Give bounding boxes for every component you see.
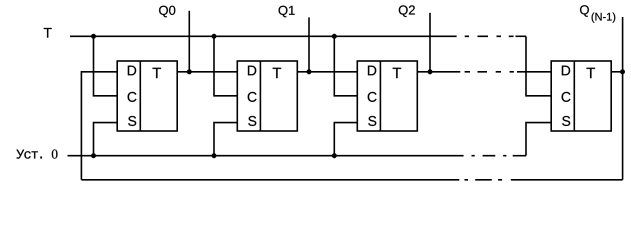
flip-flop U3 box (357, 61, 417, 131)
pin label D3 (368, 66, 376, 76)
label Уст.0 (16, 150, 57, 159)
pin label S1 (128, 116, 136, 126)
pin label D4 (562, 66, 570, 76)
wire Q(N-1) tap and feedback drop (622, 17, 624, 180)
label U1 type T (153, 68, 161, 78)
node T-C2 junction (212, 34, 217, 39)
wire C1 clock drop (94, 36, 118, 96)
wire C3 clock drop (334, 36, 357, 96)
flip-flop U2 divider (259, 61, 261, 131)
label Q2 (399, 5, 415, 17)
node T-C1 junction (91, 34, 96, 39)
label Q0 (159, 6, 175, 18)
pin label S3 (368, 116, 376, 126)
wire Q0 tap vertical (188, 11, 190, 72)
wire Q2 tap vertical (429, 13, 431, 72)
wire D1 feedback riser (81, 72, 117, 180)
pin label D2 (248, 66, 256, 76)
wire D4 input segment (517, 71, 551, 73)
node Q0 tap junction (187, 69, 192, 74)
label Q of Q(N-1) (580, 5, 589, 17)
flip-flop U4 box (551, 61, 611, 131)
wire bottom rail dash-dot continuation (465, 179, 503, 181)
node Уст.0-S1 junction (91, 153, 96, 158)
wire C4 clock drop (526, 36, 551, 96)
wire T clock rail (70, 35, 457, 37)
pin label C1 (128, 92, 137, 102)
wire Уст.0 rail right end (513, 155, 526, 157)
wire C2 clock drop (214, 36, 237, 96)
wire Q2-D4 dash-dot continuation (465, 71, 514, 73)
node Q(N-1) tap junction (620, 69, 625, 74)
wire bottom rail right end (511, 179, 623, 181)
wire S1 set riser (94, 123, 118, 156)
label subscript (N-1) (592, 13, 616, 23)
node T-C3 junction (332, 34, 337, 39)
wire feedback bottom rail (81, 179, 459, 181)
flip-flop U1 divider (139, 61, 141, 131)
node Уст.0-S2 junction (212, 153, 217, 158)
pin label S2 (248, 116, 256, 126)
wire Q1 tap vertical (308, 17, 310, 71)
label U3 type T (393, 68, 401, 78)
pin label C3 (368, 92, 377, 102)
pin label D1 (128, 66, 136, 76)
flip-flop U2 box (237, 61, 297, 131)
pin label S4 (562, 116, 570, 126)
wire Q1 output to D3 (297, 71, 357, 73)
label U4 type T (587, 68, 595, 78)
wire T rail right end (516, 35, 527, 37)
wire Уст.0 reset rail (68, 155, 464, 157)
label U2 type T (273, 68, 281, 78)
node Q1 tap junction (307, 69, 312, 74)
wire Уст.0 rail dash-dot continuation (472, 155, 507, 157)
flip-flop U3 divider (379, 61, 381, 131)
wire Q0 output to D2 (177, 71, 237, 73)
wire S4 set riser (526, 123, 551, 156)
node Уст.0-S3 junction (332, 153, 337, 158)
pin label C2 (248, 92, 257, 102)
node Q2 tap junction (428, 69, 433, 74)
wire S2 set riser (214, 123, 237, 156)
pin label C4 (562, 92, 571, 102)
flip-flop U4 divider (573, 61, 575, 131)
label Q1 (279, 6, 295, 18)
flip-flop U1 box (117, 61, 177, 131)
wire Q(N-1) output segment (611, 71, 622, 73)
wire S3 set riser (334, 123, 357, 156)
label T input (44, 28, 52, 38)
wire T rail dash-dot continuation (465, 35, 514, 37)
wire Q2 output segment (417, 71, 460, 73)
